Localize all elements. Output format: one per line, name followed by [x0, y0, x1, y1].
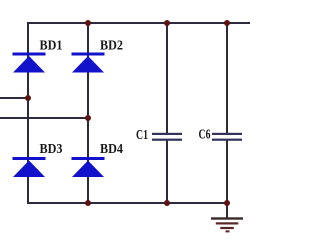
capacitor C6: [212, 133, 242, 141]
capacitor C1: [152, 133, 182, 141]
junction bottom of C1 column: [164, 200, 170, 206]
junction top of BD2 column: [85, 20, 91, 26]
svg-text:C1: C1: [136, 128, 148, 143]
diode BD1: [13, 53, 46, 73]
wire C6 column lower to ground: [226, 140, 228, 218]
wire C1 column upper: [166, 22, 168, 133]
svg-text:BD4: BD4: [100, 142, 123, 157]
junction bottom of BD4 column: [85, 200, 91, 206]
junction bottom of C6 column at ground: [224, 200, 230, 206]
wire AC input lower to BD2 column: [0, 117, 88, 119]
ground: [211, 217, 243, 232]
wire C6 column upper: [226, 22, 228, 133]
svg-text:BD3: BD3: [40, 142, 63, 157]
svg-text:BD2: BD2: [100, 39, 123, 54]
junction top of C6 column: [224, 20, 230, 26]
wire top bus from BD1 column to right stub: [28, 22, 250, 24]
wire left column BD1/BD3 vertical: [27, 22, 29, 204]
diode BD3: [13, 157, 46, 177]
junction AC input lower at BD2 column: [85, 115, 91, 121]
wire AC input upper to BD1 column: [0, 97, 28, 99]
wire bottom bus: [28, 202, 227, 204]
junction AC input upper at BD1 column: [25, 95, 31, 101]
diode BD4: [72, 157, 105, 177]
svg-text:BD1: BD1: [40, 39, 63, 54]
wire C1 column lower: [166, 140, 168, 204]
diode BD2: [72, 53, 105, 73]
wire second column BD2/BD4 vertical: [87, 22, 89, 204]
junction top of C1 column: [164, 20, 170, 26]
svg-text:C6: C6: [199, 128, 211, 143]
